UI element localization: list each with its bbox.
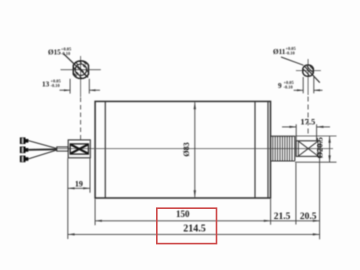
motor body outline (95, 101, 270, 198)
extension line shaft tip (319, 157, 321, 239)
flatted circle (303, 65, 314, 76)
hatch ticks (74, 61, 89, 79)
horizontal centerline (61, 69, 101, 71)
grommet outer housing (68, 140, 90, 158)
spline X diagonal 1 (298, 141, 318, 156)
inner circle (75, 64, 86, 75)
dimension line 19 (68, 187, 90, 189)
terminal 3 (20, 156, 29, 163)
thread bars (273, 136, 292, 161)
svg-text:21.5: 21.5 (274, 212, 291, 222)
dimension 9: extension lines (302, 77, 304, 93)
spline chamfer left (297, 141, 299, 157)
diagonal through circle (304, 66, 320, 83)
outer flatted circle (73, 61, 88, 79)
left end-cap line (104, 101, 106, 198)
vertical centerline (80, 56, 82, 97)
dimension line row2 (68, 233, 320, 235)
svg-text:19: 19 (75, 180, 83, 189)
extension line 270.6 (270, 199, 272, 225)
svg-text:Ø20.5: Ø20.5 (314, 137, 324, 159)
horizontal centerline (57, 148, 334, 150)
svg-text:Ø11: Ø11 (273, 48, 286, 56)
dimension line (329, 136, 331, 162)
extension line bottom (295, 161, 337, 163)
wire bundle (57, 147, 68, 151)
svg-text:150: 150 (176, 209, 190, 219)
thread section outline (271, 135, 295, 137)
svg-text:Ø83: Ø83 (182, 142, 191, 156)
terminal 1 (20, 137, 29, 144)
svg-text:20.5: 20.5 (300, 212, 317, 222)
projection dashed line (80, 98, 82, 141)
horizontal centerline (296, 70, 321, 72)
svg-text:214.5: 214.5 (183, 223, 206, 234)
dimension line row1 (95, 220, 320, 222)
spline X diagonal 2 (298, 141, 318, 156)
wire bottom (28, 150, 56, 159)
dimension 13: extension lines (69, 79, 71, 94)
svg-text:13: 13 (42, 80, 50, 88)
red highlight box (157, 208, 217, 243)
extension line left (also 214.5) (67, 158, 69, 239)
extension line top (295, 135, 337, 137)
svg-text:-0.10: -0.10 (284, 85, 294, 90)
extension line 295.9 (295, 163, 297, 225)
hatch lines (304, 66, 314, 75)
grommet inner block (70, 144, 88, 154)
terminal 2 (20, 147, 29, 154)
svg-text:-0.10: -0.10 (286, 51, 296, 56)
leader + diagonal Ø15 (64, 54, 89, 78)
spline chamfer right (317, 141, 319, 157)
dimension line 9 (294, 89, 304, 91)
svg-text:-0.10: -0.10 (51, 83, 61, 88)
extension line body left (94, 199, 96, 225)
right end-cap line (267, 101, 269, 198)
svg-text:9: 9 (278, 82, 282, 90)
svg-text:-0.10: -0.10 (61, 51, 71, 56)
extension line left (295, 124, 297, 140)
extension line right (316, 124, 318, 140)
grommet X diagonal 2 (70, 144, 88, 153)
right inner panel line (254, 101, 256, 198)
dimension line 17.5 (282, 126, 296, 128)
vertical centerline / projection (307, 59, 309, 95)
extension line right (89, 158, 91, 193)
dimension line 13 (60, 89, 71, 91)
wire middle (28, 148, 56, 151)
grommet X diagonal 1 (70, 144, 88, 153)
wire top (28, 141, 56, 149)
leader Ø11 (281, 57, 303, 65)
svg-text:Ø15: Ø15 (48, 48, 61, 56)
dimension line Ø83 (194, 102, 196, 197)
spline section box (296, 141, 320, 157)
